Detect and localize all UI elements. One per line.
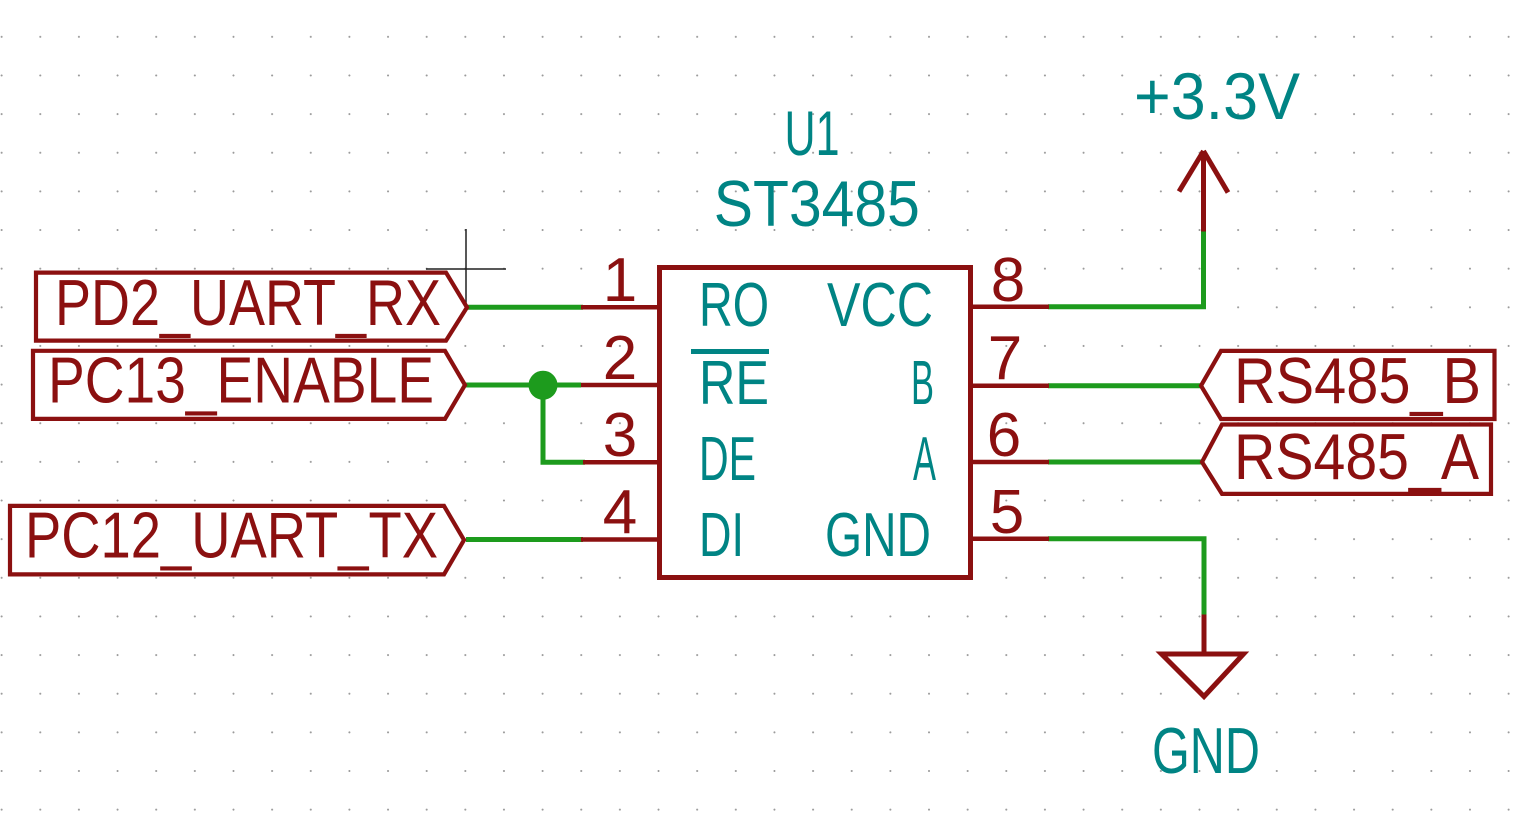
svg-text:DE: DE xyxy=(699,425,756,494)
power symbol +3.3V xyxy=(1179,151,1228,232)
svg-text:7: 7 xyxy=(988,324,1022,393)
svg-text:RS485_B: RS485_B xyxy=(1234,344,1481,417)
pin 2 RE stub xyxy=(581,383,660,388)
svg-text:4: 4 xyxy=(603,478,637,547)
svg-text:3: 3 xyxy=(603,401,637,470)
wire pin5 GND to GND symbol xyxy=(1048,539,1204,615)
pin 6 A stub xyxy=(970,460,1049,465)
svg-text:6: 6 xyxy=(987,401,1021,470)
junction on PC13_ENABLE net xyxy=(529,371,558,400)
svg-text:B: B xyxy=(911,349,934,418)
svg-text:RE: RE xyxy=(699,349,769,418)
global label RS485_B xyxy=(1201,344,1495,419)
wire pin4 to PC12_UART_TX xyxy=(466,537,583,542)
svg-text:DI: DI xyxy=(699,501,744,570)
svg-text:1: 1 xyxy=(603,246,637,315)
svg-text:GND: GND xyxy=(1152,714,1260,787)
pin 4 DI stub xyxy=(581,537,660,542)
svg-text:PD2_UART_RX: PD2_UART_RX xyxy=(55,266,441,339)
wire pin2 to PC13_ENABLE xyxy=(465,383,581,388)
svg-text:+3.3V: +3.3V xyxy=(1134,59,1300,133)
global label PD2_UART_RX xyxy=(36,266,467,341)
wire pin8 VCC to +3.3V xyxy=(1048,231,1204,307)
svg-text:VCC: VCC xyxy=(827,271,933,340)
wire junction branch to pin3 DE xyxy=(543,385,585,462)
svg-text:RS485_A: RS485_A xyxy=(1234,420,1480,493)
RE overline xyxy=(691,349,769,354)
pin 3 DE stub xyxy=(583,460,660,465)
svg-text:5: 5 xyxy=(990,478,1024,547)
svg-text:A: A xyxy=(913,425,936,494)
cursor crosshair xyxy=(426,229,506,309)
wire pin1 to PD2_UART_RX xyxy=(467,305,583,310)
global label PC13_ENABLE xyxy=(33,344,465,419)
global label PC12_UART_TX xyxy=(10,499,464,575)
pin 7 B stub xyxy=(970,383,1049,388)
svg-text:2: 2 xyxy=(603,324,637,393)
svg-text:8: 8 xyxy=(991,246,1025,315)
svg-text:PC13_ENABLE: PC13_ENABLE xyxy=(48,344,434,417)
svg-text:PC12_UART_TX: PC12_UART_TX xyxy=(25,499,438,572)
pin 1 RO stub xyxy=(581,305,660,310)
pin 8 VCC stub xyxy=(970,305,1049,310)
global label RS485_A xyxy=(1202,420,1491,494)
svg-text:ST3485: ST3485 xyxy=(714,167,920,240)
svg-text:U1: U1 xyxy=(785,99,840,169)
pin 5 GND stub xyxy=(970,537,1049,542)
op-amp U1 body (ST3485 transceiver) xyxy=(660,268,971,578)
svg-text:GND: GND xyxy=(825,501,931,570)
wire pin7 B to RS485_B xyxy=(1048,383,1202,388)
svg-text:RO: RO xyxy=(699,271,769,340)
ground symbol GND xyxy=(1162,615,1244,697)
wire pin6 A to RS485_A xyxy=(1048,460,1203,465)
